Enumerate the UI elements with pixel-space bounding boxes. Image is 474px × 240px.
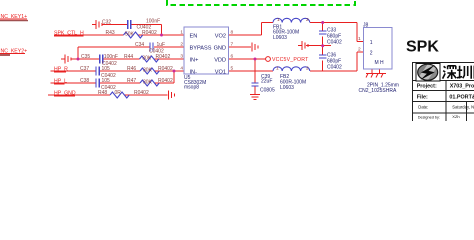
svg-text:22uF: 22uF [261, 79, 272, 85]
svg-text:8: 8 [231, 30, 234, 36]
svg-text:30K: 30K [143, 80, 153, 86]
svg-text:1: 1 [277, 17, 280, 23]
svg-text:GND: GND [214, 46, 226, 52]
svg-text:C34: C34 [135, 42, 144, 48]
svg-text:R46: R46 [127, 66, 136, 72]
svg-text:C38: C38 [80, 78, 89, 84]
svg-text:R0402: R0402 [158, 78, 173, 84]
svg-text:2: 2 [370, 51, 373, 57]
svg-text:4: 4 [180, 66, 183, 72]
svg-text:100nF: 100nF [146, 18, 160, 24]
svg-text:2: 2 [358, 46, 361, 52]
svg-text:R0402: R0402 [156, 54, 171, 60]
svg-text:M H: M H [375, 60, 385, 66]
svg-text:HP_GND: HP_GND [54, 91, 76, 97]
svg-text:105: 105 [102, 66, 111, 72]
svg-text:Designed by:: Designed by: [418, 115, 440, 119]
svg-text:1: 1 [180, 30, 183, 36]
svg-text:VDD: VDD [214, 58, 226, 64]
svg-text:0R: 0R [115, 90, 122, 96]
svg-text:CN2_1025SHRA: CN2_1025SHRA [359, 88, 397, 94]
svg-text:EN: EN [190, 34, 198, 40]
svg-text:SPK_CTL_H: SPK_CTL_H [54, 31, 84, 37]
svg-text:L0603: L0603 [273, 35, 287, 41]
svg-text:HP_R: HP_R [54, 67, 68, 73]
svg-text:C0402: C0402 [327, 65, 342, 71]
svg-text:L0603: L0603 [280, 85, 294, 91]
svg-text:msop8: msop8 [184, 85, 199, 91]
svg-text:X703_Pro: X703_Pro [450, 84, 474, 90]
svg-text:105: 105 [102, 78, 111, 84]
svg-text:SPK: SPK [406, 39, 439, 56]
svg-text:5: 5 [231, 66, 234, 72]
svg-text:VCC5V_PORT: VCC5V_PORT [272, 57, 309, 63]
svg-text:30K: 30K [143, 68, 153, 74]
svg-text:01.PORT&K: 01.PORT&K [449, 95, 474, 101]
svg-text:Project:: Project: [417, 84, 437, 90]
svg-text:1uF: 1uF [157, 42, 166, 48]
svg-text:R0402: R0402 [142, 30, 157, 36]
svg-text:2: 2 [180, 42, 183, 48]
svg-text:VO1: VO1 [215, 70, 226, 76]
svg-text:XZh: XZh [452, 114, 459, 119]
svg-text:1: 1 [370, 40, 373, 46]
svg-text:IN+: IN+ [190, 58, 199, 64]
svg-text:C0805: C0805 [260, 88, 275, 94]
svg-text:7: 7 [231, 42, 234, 48]
svg-text:C32: C32 [102, 19, 111, 25]
svg-text:100nF: 100nF [104, 54, 118, 60]
svg-text:1: 1 [358, 36, 361, 42]
svg-text:6: 6 [231, 54, 234, 60]
svg-text:2: 2 [306, 17, 309, 23]
svg-text:R47: R47 [127, 78, 136, 84]
svg-text:Saturday, N: Saturday, N [452, 104, 474, 109]
svg-text:30K: 30K [142, 56, 152, 62]
svg-text:1: 1 [276, 66, 279, 72]
svg-text:File:: File: [417, 95, 428, 101]
svg-text:Date:: Date: [418, 104, 428, 109]
svg-text:J8: J8 [363, 23, 369, 29]
svg-text:BYPASS: BYPASS [190, 46, 212, 52]
svg-text:C37: C37 [80, 66, 89, 72]
svg-text:INC_KEY2+: INC_KEY2+ [0, 48, 27, 54]
svg-text:IN-: IN- [190, 70, 198, 76]
svg-text:2: 2 [306, 66, 309, 72]
svg-text:INC_KEY1+: INC_KEY1+ [0, 14, 27, 20]
svg-text:R0402: R0402 [158, 66, 173, 72]
svg-text:R48: R48 [98, 90, 107, 96]
svg-text:VO2: VO2 [215, 34, 226, 40]
svg-text:50K: 50K [125, 32, 135, 38]
svg-text:3: 3 [180, 54, 183, 60]
svg-text:R43: R43 [106, 30, 115, 36]
svg-text:R44: R44 [124, 54, 133, 60]
svg-text:C0402: C0402 [327, 40, 342, 46]
svg-text:R0402: R0402 [134, 90, 149, 96]
svg-text:C35: C35 [81, 54, 90, 60]
svg-text:HP_L: HP_L [54, 79, 67, 85]
